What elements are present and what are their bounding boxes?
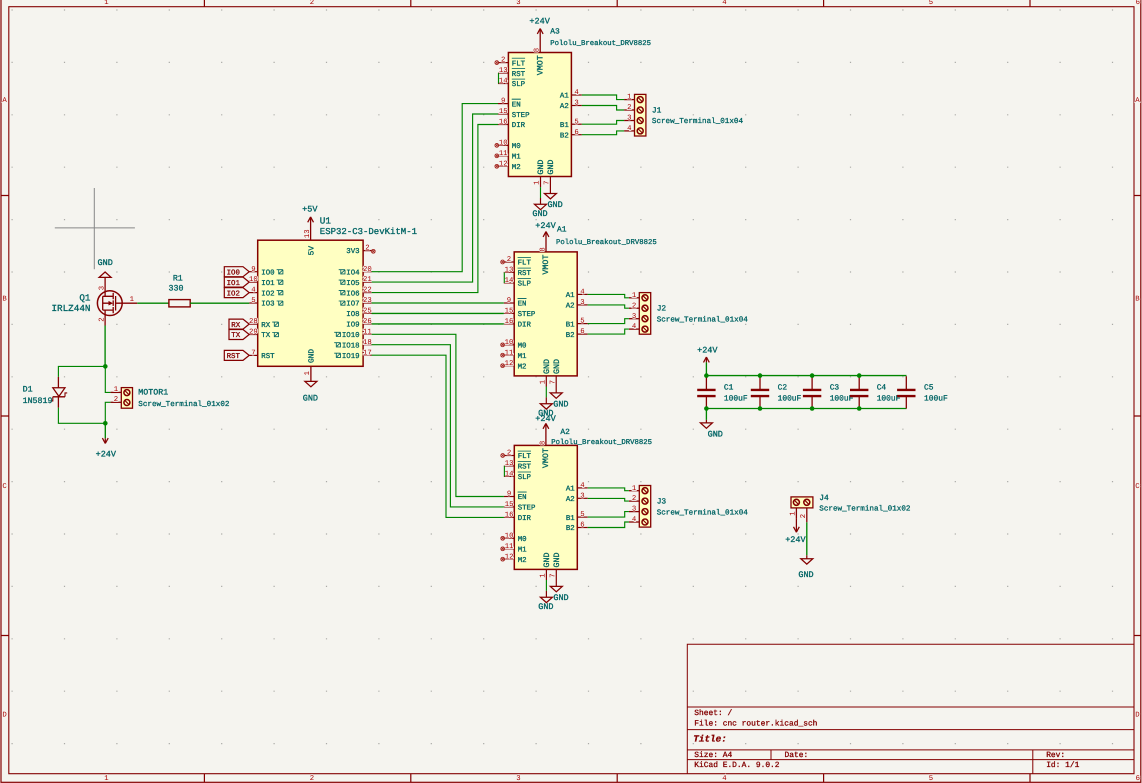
wire IO19 to A2 DIR xyxy=(372,355,504,517)
wire junction to D1 top xyxy=(58,366,105,377)
svg-text:M2: M2 xyxy=(512,164,521,172)
power GND below capacitor bank xyxy=(700,409,723,440)
wire IO10 to A2 EN xyxy=(372,334,504,496)
svg-text:+24V: +24V xyxy=(535,414,556,424)
svg-text:STEP: STEP xyxy=(518,311,536,319)
power GND below A2 pin7 xyxy=(550,569,568,603)
svg-text:21: 21 xyxy=(363,276,372,284)
svg-text:2: 2 xyxy=(310,0,314,7)
svg-text:C5: C5 xyxy=(924,384,934,393)
svg-text:Screw_Terminal_01x02: Screw_Terminal_01x02 xyxy=(138,400,230,409)
junction cap bus xyxy=(857,373,862,378)
svg-text:17: 17 xyxy=(363,349,372,357)
svg-text:11: 11 xyxy=(363,328,372,336)
svg-text:J4: J4 xyxy=(819,494,829,503)
svg-text:10: 10 xyxy=(505,339,514,347)
wire A3.A2 to J1.2 xyxy=(582,106,624,111)
wire MOTOR1 pin2 to junction2 xyxy=(105,402,110,423)
capacitor C3 100uF xyxy=(803,376,854,408)
wire A3.B2 to J1.4 xyxy=(582,131,624,135)
svg-text:16: 16 xyxy=(505,318,514,326)
global label IO0 xyxy=(224,267,249,278)
connector J1 Screw_Terminal_01x04 xyxy=(624,94,743,136)
power +24V above A3 xyxy=(529,17,550,53)
junction cap bus xyxy=(810,406,815,411)
junction cap bus xyxy=(704,406,709,411)
svg-text:15: 15 xyxy=(499,108,508,116)
svg-text:Title:: Title: xyxy=(693,733,726,744)
svg-text:5: 5 xyxy=(580,318,584,326)
svg-text:2: 2 xyxy=(501,57,505,65)
svg-text:26: 26 xyxy=(363,318,372,326)
svg-text:1: 1 xyxy=(304,370,312,375)
svg-text:16: 16 xyxy=(499,119,508,127)
svg-text:9: 9 xyxy=(501,98,505,106)
svg-text:M0: M0 xyxy=(518,536,527,544)
svg-text:File: cnc router.kicad_sch: File: cnc router.kicad_sch xyxy=(694,719,817,728)
svg-text:EN: EN xyxy=(518,494,527,502)
svg-text:STEP: STEP xyxy=(512,112,530,120)
svg-text:Date:: Date: xyxy=(785,751,809,760)
svg-text:3: 3 xyxy=(627,115,631,123)
svg-text:4: 4 xyxy=(251,287,256,295)
svg-text:13: 13 xyxy=(505,267,514,275)
svg-text:EN: EN xyxy=(512,101,521,109)
svg-text:28: 28 xyxy=(249,318,258,326)
svg-text:M1: M1 xyxy=(518,353,527,361)
svg-text:4: 4 xyxy=(722,775,727,783)
svg-text:+5V: +5V xyxy=(302,204,318,214)
capacitor C4 100uF xyxy=(850,376,901,408)
power +24V above A2 xyxy=(535,414,556,446)
svg-text:M1: M1 xyxy=(512,154,521,162)
svg-text:10: 10 xyxy=(505,532,514,540)
svg-text:3V3: 3V3 xyxy=(346,248,359,256)
svg-text:IO18: IO18 xyxy=(342,342,360,350)
svg-text:4: 4 xyxy=(574,89,579,97)
global label RST xyxy=(224,350,249,361)
wire A3.A1 to J1.1 xyxy=(582,95,624,100)
wire IO18 to A2 STEP xyxy=(372,345,504,507)
svg-text:IO9: IO9 xyxy=(346,322,359,330)
svg-text:IO1: IO1 xyxy=(227,280,241,288)
svg-text:GND: GND xyxy=(547,200,562,210)
svg-text:12: 12 xyxy=(499,160,508,168)
svg-text:15: 15 xyxy=(505,501,514,509)
svg-text:B1: B1 xyxy=(566,321,575,329)
svg-text:11: 11 xyxy=(505,349,514,357)
wire junction1 to MOTOR1 pin1 xyxy=(105,366,110,392)
svg-text:B: B xyxy=(1135,296,1140,304)
svg-text:VMOT: VMOT xyxy=(536,55,545,75)
svg-text:B1: B1 xyxy=(560,122,569,130)
svg-text:GND: GND xyxy=(798,570,813,580)
svg-text:SLP: SLP xyxy=(518,281,532,289)
svg-text:KiCad E.D.A. 9.0.2: KiCad E.D.A. 9.0.2 xyxy=(694,761,779,770)
global label TX xyxy=(229,330,249,341)
svg-text:4: 4 xyxy=(627,125,632,133)
svg-text:+24V: +24V xyxy=(535,221,556,231)
svg-text:VMOT: VMOT xyxy=(542,255,551,275)
svg-text:A2: A2 xyxy=(566,496,575,504)
wire IO9 to A1 DIR xyxy=(372,323,504,325)
power GND below A2 pin1 xyxy=(538,569,553,612)
svg-text:1: 1 xyxy=(632,485,637,493)
svg-text:1: 1 xyxy=(114,386,119,394)
svg-text:A2: A2 xyxy=(560,428,570,437)
svg-text:100uF: 100uF xyxy=(724,394,748,403)
svg-text:13: 13 xyxy=(304,229,312,238)
svg-text:2: 2 xyxy=(98,317,106,321)
svg-text:J2: J2 xyxy=(657,305,667,314)
svg-text:Screw_Terminal_01x04: Screw_Terminal_01x04 xyxy=(652,117,744,126)
wire A1.A2 to J2.2 xyxy=(588,305,629,308)
svg-text:3: 3 xyxy=(580,299,584,307)
svg-text:EN: EN xyxy=(518,301,527,309)
svg-text:A1: A1 xyxy=(557,226,567,235)
svg-text:DIR: DIR xyxy=(518,515,532,523)
svg-text:FLT: FLT xyxy=(518,260,532,268)
U1 right pins xyxy=(334,266,372,361)
wire A1.B1 to J2.3 xyxy=(588,319,629,324)
svg-text:29: 29 xyxy=(249,329,258,337)
svg-text:5: 5 xyxy=(251,297,255,305)
wire A3.B1 to J1.3 xyxy=(582,121,624,125)
svg-text:IO4: IO4 xyxy=(346,269,360,277)
global label IO1 xyxy=(224,277,249,288)
svg-text:15: 15 xyxy=(505,308,514,316)
svg-text:FLT: FLT xyxy=(512,60,526,68)
svg-text:GND: GND xyxy=(538,602,553,612)
svg-text:14: 14 xyxy=(505,277,514,285)
diode D1 1N5819 xyxy=(23,377,68,408)
svg-text:1: 1 xyxy=(130,296,135,304)
svg-text:5: 5 xyxy=(580,511,584,519)
svg-text:RST: RST xyxy=(261,353,275,361)
svg-text:GND: GND xyxy=(537,160,546,175)
svg-text:Id: 1/1: Id: 1/1 xyxy=(1046,761,1079,770)
svg-text:2: 2 xyxy=(800,514,808,518)
wire IO8 to A1 STEP xyxy=(372,312,504,314)
title block xyxy=(687,644,1134,774)
svg-text:3: 3 xyxy=(98,286,106,290)
svg-text:11: 11 xyxy=(505,543,514,551)
svg-text:J1: J1 xyxy=(652,106,662,115)
svg-text:6: 6 xyxy=(1136,775,1140,783)
svg-text:1: 1 xyxy=(632,292,637,300)
global label IO2 xyxy=(224,288,249,299)
svg-text:C: C xyxy=(1135,483,1140,491)
svg-text:10: 10 xyxy=(499,140,508,148)
capacitor C1 100uF xyxy=(697,376,748,408)
svg-text:TX: TX xyxy=(231,332,240,340)
svg-text:D: D xyxy=(1135,712,1140,720)
svg-text:STEP: STEP xyxy=(518,505,536,513)
connector J2 Screw_Terminal_01x04 xyxy=(629,292,748,334)
svg-text:3: 3 xyxy=(580,492,584,500)
svg-text:GND: GND xyxy=(547,160,556,175)
ic A1 Pololu_Breakout_DRV8825 xyxy=(501,247,588,384)
svg-text:Screw_Terminal_01x02: Screw_Terminal_01x02 xyxy=(819,505,911,514)
power GND below A1 pin1 xyxy=(538,376,553,419)
svg-text:IO2: IO2 xyxy=(227,290,240,298)
svg-text:4: 4 xyxy=(722,0,727,7)
svg-text:M2: M2 xyxy=(518,363,527,371)
ic U1 ESP32-C3-DevKitM-1 xyxy=(258,215,417,366)
svg-text:M2: M2 xyxy=(518,557,527,565)
svg-text:18: 18 xyxy=(363,339,372,347)
svg-text:2: 2 xyxy=(632,302,636,310)
svg-text:5: 5 xyxy=(929,775,933,783)
U1 GND pin + power GND below U1 xyxy=(303,349,318,404)
svg-text:MOTOR1: MOTOR1 xyxy=(138,388,168,397)
svg-text:GND: GND xyxy=(553,593,568,603)
svg-text:D1: D1 xyxy=(23,386,33,395)
svg-text:IO6: IO6 xyxy=(346,290,359,298)
svg-text:Screw_Terminal_01x04: Screw_Terminal_01x04 xyxy=(657,315,749,324)
svg-text:IO8: IO8 xyxy=(346,311,359,319)
svg-text:C1: C1 xyxy=(724,384,734,393)
power +24V below J4 pin1 xyxy=(785,518,806,545)
svg-text:IO7: IO7 xyxy=(346,301,359,309)
svg-text:9: 9 xyxy=(507,297,511,305)
svg-text:RST: RST xyxy=(512,71,526,79)
wire D1 bottom xyxy=(58,408,105,424)
svg-text:6: 6 xyxy=(574,129,578,137)
capacitor C2 100uF xyxy=(751,376,802,408)
svg-text:GND: GND xyxy=(553,553,562,568)
svg-text:IO10: IO10 xyxy=(342,332,360,340)
wire Q1 drain down xyxy=(104,326,106,367)
junction cap bus xyxy=(758,373,763,378)
capacitor C5 100uF xyxy=(897,376,948,408)
svg-text:3: 3 xyxy=(516,775,520,783)
wire IO7 to A1 EN xyxy=(372,302,504,304)
svg-text:1: 1 xyxy=(104,775,109,783)
connector J4 Screw_Terminal_01x02 xyxy=(790,494,911,522)
svg-text:M1: M1 xyxy=(518,547,527,555)
svg-text:3: 3 xyxy=(632,313,636,321)
global label RX xyxy=(229,319,249,330)
svg-text:B2: B2 xyxy=(560,132,569,140)
connector J3 Screw_Terminal_01x04 xyxy=(629,485,748,527)
svg-text:2: 2 xyxy=(507,256,511,264)
svg-text:SLP: SLP xyxy=(512,81,526,89)
svg-text:2: 2 xyxy=(507,450,511,458)
svg-text:Screw_Terminal_01x04: Screw_Terminal_01x04 xyxy=(657,508,749,517)
connector MOTOR1 Screw_Terminal_01x02 xyxy=(111,386,230,409)
svg-text:1N5819: 1N5819 xyxy=(23,397,53,406)
svg-text:Pololu_Breakout_DRV8825: Pololu_Breakout_DRV8825 xyxy=(550,39,651,48)
svg-text:5V: 5V xyxy=(307,246,316,256)
svg-text:B2: B2 xyxy=(566,332,575,340)
ic A2 Pololu_Breakout_DRV8825 xyxy=(501,441,588,578)
wire A2.A1 to J3.1 xyxy=(588,488,629,491)
svg-text:FLT: FLT xyxy=(518,453,532,461)
svg-text:3: 3 xyxy=(516,0,520,7)
svg-text:Rev:: Rev: xyxy=(1046,751,1065,760)
svg-text:M0: M0 xyxy=(512,143,521,151)
power GND below A3 pin1 xyxy=(532,177,547,220)
svg-text:IO0: IO0 xyxy=(261,269,274,277)
svg-text:C4: C4 xyxy=(877,384,887,393)
svg-text:7: 7 xyxy=(251,350,255,358)
power GND below A3 pin7 xyxy=(544,177,562,211)
svg-text:1: 1 xyxy=(627,94,632,102)
wire IO5 to A3 STEP xyxy=(372,114,498,282)
wire A1.B2 to J2.4 xyxy=(588,329,629,334)
svg-text:A: A xyxy=(2,97,7,105)
wire Q1 gate to R1 xyxy=(137,302,169,304)
svg-text:U1: U1 xyxy=(320,215,332,226)
svg-text:2: 2 xyxy=(365,244,369,252)
svg-text:11: 11 xyxy=(499,150,508,158)
svg-text:A3: A3 xyxy=(550,28,560,37)
svg-text:IO3: IO3 xyxy=(261,301,274,309)
svg-text:100uF: 100uF xyxy=(877,394,901,403)
svg-text:B1: B1 xyxy=(566,515,575,523)
resistor R1 330 xyxy=(169,274,191,307)
svg-text:TX: TX xyxy=(261,332,270,340)
junction cap bus xyxy=(758,406,763,411)
svg-text:9: 9 xyxy=(251,266,255,274)
junction +24V node xyxy=(103,421,108,426)
svg-text:Pololu_Breakout_DRV8825: Pololu_Breakout_DRV8825 xyxy=(556,238,657,247)
power +24V above A1 xyxy=(535,221,556,252)
wire cap top bus xyxy=(706,375,906,377)
svg-text:12: 12 xyxy=(505,360,514,368)
svg-text:D: D xyxy=(2,712,7,720)
wire cap bottom bus xyxy=(706,408,906,410)
svg-text:A1: A1 xyxy=(566,292,575,300)
wire A2.B1 to J3.3 xyxy=(588,512,629,517)
svg-text:1: 1 xyxy=(104,0,109,7)
svg-text:A2: A2 xyxy=(560,103,569,111)
svg-text:20: 20 xyxy=(363,266,372,274)
svg-text:2: 2 xyxy=(310,775,314,783)
svg-text:5: 5 xyxy=(574,118,578,126)
svg-text:GND: GND xyxy=(303,393,318,403)
svg-text:RST: RST xyxy=(518,270,532,278)
svg-text:+24V: +24V xyxy=(785,535,806,545)
svg-text:A1: A1 xyxy=(566,486,575,494)
svg-text:RST: RST xyxy=(227,353,241,361)
svg-text:Pololu_Breakout_DRV8825: Pololu_Breakout_DRV8825 xyxy=(551,438,652,447)
svg-text:1: 1 xyxy=(790,511,798,516)
svg-text:RX: RX xyxy=(231,322,240,330)
svg-text:2: 2 xyxy=(632,495,636,503)
junction cap bus xyxy=(810,373,815,378)
svg-text:B: B xyxy=(2,296,7,304)
power GND below J4 pin2 xyxy=(798,522,813,580)
svg-text:C3: C3 xyxy=(830,384,840,393)
svg-text:RST: RST xyxy=(518,464,532,472)
svg-text:C2: C2 xyxy=(778,384,788,393)
svg-text:GND: GND xyxy=(553,399,568,409)
svg-text:IRLZ44N: IRLZ44N xyxy=(51,303,90,314)
wire A1.A1 to J2.1 xyxy=(588,294,629,297)
power +24V above capacitor bank xyxy=(697,346,718,376)
svg-text:C: C xyxy=(2,483,7,491)
svg-text:2: 2 xyxy=(627,104,631,112)
svg-text:+24V: +24V xyxy=(529,17,550,27)
svg-text:IO1: IO1 xyxy=(261,280,275,288)
svg-text:VMOT: VMOT xyxy=(542,448,551,468)
wire A2.B2 to J3.4 xyxy=(588,522,629,528)
svg-text:M0: M0 xyxy=(518,343,527,351)
svg-text:22: 22 xyxy=(363,287,372,295)
wire R1 to U1 IO3 xyxy=(190,302,249,304)
cursor crosshair xyxy=(55,188,135,269)
svg-text:4: 4 xyxy=(580,482,585,490)
svg-text:IO5: IO5 xyxy=(346,280,359,288)
svg-text:IO0: IO0 xyxy=(227,269,240,277)
svg-text:RX: RX xyxy=(261,322,270,330)
no-connect 3V3 xyxy=(371,249,375,253)
U1 left pins xyxy=(249,266,283,361)
wire IO6 to A3 DIR xyxy=(372,125,498,293)
svg-text:9: 9 xyxy=(507,491,511,499)
svg-text:A2: A2 xyxy=(566,303,575,311)
svg-text:GND: GND xyxy=(708,430,723,440)
svg-text:5: 5 xyxy=(929,0,933,7)
power +5V above U1 xyxy=(302,204,318,240)
power +24V below MOTOR1 xyxy=(96,423,117,459)
svg-text:14: 14 xyxy=(499,78,508,86)
svg-text:16: 16 xyxy=(505,512,514,520)
svg-text:B2: B2 xyxy=(566,525,575,533)
svg-text:13: 13 xyxy=(499,67,508,75)
svg-text:23: 23 xyxy=(363,297,372,305)
svg-text:GND: GND xyxy=(532,209,547,219)
svg-text:R1: R1 xyxy=(173,274,183,283)
svg-text:DIR: DIR xyxy=(518,322,532,330)
svg-text:4: 4 xyxy=(580,289,585,297)
svg-text:25: 25 xyxy=(363,308,372,316)
svg-text:6: 6 xyxy=(1136,0,1140,7)
svg-text:Size: A4: Size: A4 xyxy=(694,751,732,760)
wire IO4 to A3 EN xyxy=(372,104,498,272)
svg-text:GND: GND xyxy=(553,359,562,374)
svg-text:GND: GND xyxy=(543,359,552,374)
svg-text:10: 10 xyxy=(249,276,258,284)
ic A3 Pololu_Breakout_DRV8825 xyxy=(495,48,582,185)
svg-text:Q1: Q1 xyxy=(79,292,91,303)
power GND above Q1 xyxy=(98,258,113,291)
svg-text:100uF: 100uF xyxy=(924,394,948,403)
svg-text:330: 330 xyxy=(169,284,184,293)
svg-text:3: 3 xyxy=(574,100,578,108)
junction drain node xyxy=(103,364,108,369)
transistor Q1 IRLZ44N xyxy=(51,286,137,326)
svg-text:IO19: IO19 xyxy=(342,353,360,361)
svg-text:2: 2 xyxy=(114,396,118,404)
svg-text:+24V: +24V xyxy=(96,449,117,459)
svg-text:100uF: 100uF xyxy=(778,394,802,403)
svg-text:+24V: +24V xyxy=(697,346,718,356)
svg-text:4: 4 xyxy=(632,323,637,331)
svg-text:SLP: SLP xyxy=(518,474,532,482)
svg-text:6: 6 xyxy=(580,328,584,336)
svg-text:6: 6 xyxy=(580,522,584,530)
wire A2.A2 to J3.2 xyxy=(588,498,629,501)
svg-text:J3: J3 xyxy=(657,498,667,507)
svg-text:IO2: IO2 xyxy=(261,290,274,298)
svg-text:A1: A1 xyxy=(560,93,569,101)
svg-text:ESP32-C3-DevKitM-1: ESP32-C3-DevKitM-1 xyxy=(320,227,417,237)
svg-text:DIR: DIR xyxy=(512,122,526,130)
svg-text:Sheet: /: Sheet: / xyxy=(694,709,732,718)
